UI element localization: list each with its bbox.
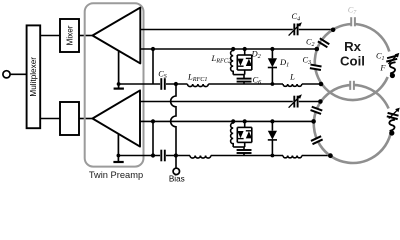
variable capacitor bottom loop right (387, 108, 400, 120)
node dot w5-w6 join (151, 153, 155, 157)
capacitor C7 gray (351, 17, 355, 26)
svg-text:L: L (289, 72, 295, 82)
capacitor CS (161, 78, 165, 90)
node dot ground w3 (117, 82, 121, 86)
op-amp top preamp (93, 8, 141, 64)
node dot w5 drop (151, 119, 155, 123)
capacitor gray bottom loop (350, 81, 354, 90)
svg-text:Mulitplexer: Mulitplexer (29, 57, 38, 97)
wire CS2 to LRFC1 lower (166, 155, 190, 157)
node bar lower (233, 146, 245, 148)
node on bottom loop w5 (311, 119, 316, 124)
node fuse bottom loop (389, 130, 394, 135)
wire w4 right segment (299, 101, 321, 103)
wire w3 middle segment (208, 83, 283, 85)
fuse squiggle bottom loop (389, 120, 394, 131)
node on bottom loop w4 (318, 99, 323, 104)
node dot ground w6 (117, 154, 121, 158)
capacitor C6 lower (237, 147, 252, 156)
diode D1 (268, 47, 277, 86)
op-amp bottom preamp (93, 90, 141, 146)
wire w4 bottom preamp output1 (140, 101, 293, 103)
lower mixer box (60, 102, 79, 135)
node C on coil (319, 82, 324, 87)
wire port to multiplexer (10, 73, 26, 75)
ground bottom preamp (113, 134, 123, 162)
svg-text:Rx: Rx (344, 39, 362, 54)
svg-text:Twin Preamp: Twin Preamp (89, 170, 143, 180)
capacitor CS lower (161, 150, 165, 162)
node fuse bottom (390, 73, 395, 78)
wire drop w2 to w3 (152, 49, 154, 84)
wire w6 lower input line (118, 155, 160, 157)
ground top preamp (114, 52, 124, 89)
diode D1 lower (268, 119, 277, 157)
variable capacitor lower (289, 94, 302, 107)
wire CS to LRFC1 (166, 83, 188, 85)
inductor L (283, 84, 302, 86)
mixer U-mix box (60, 19, 79, 52)
node on bottom loop w6 (328, 153, 333, 158)
svg-text:Coil: Coil (340, 54, 365, 69)
capacitor C4 variable (289, 22, 302, 35)
port terminal (3, 71, 10, 78)
multiplexer box (27, 25, 41, 128)
node dot bias junction (174, 153, 178, 157)
rfc network upper: vertical wire LRFC2 top (231, 47, 236, 75)
node dot bias tap on w3 (174, 82, 178, 86)
node A on coil (331, 28, 336, 33)
wire w2 second output (140, 48, 317, 50)
wire w6 middle segment (211, 155, 283, 157)
capacitor C6 (237, 75, 252, 84)
wire drop w5 to w6 (152, 121, 154, 155)
capacitor C2 on coil (318, 38, 330, 48)
node B on coil (315, 47, 320, 52)
wire w1 right segment (299, 29, 333, 31)
rfc network lower: inductor LRFC2 lower (231, 119, 236, 147)
wire L to coil (302, 83, 321, 85)
svg-text:Bias: Bias (169, 175, 185, 184)
wire w3 input line (119, 83, 161, 85)
wire w5 bottom preamp output2 (140, 120, 314, 122)
inductor LRFC1 (188, 84, 209, 87)
rx coil top loop (315, 24, 390, 100)
rx coil bottom loop (314, 85, 391, 163)
capacitor C1 variable on coil (386, 53, 399, 64)
wire mixer to top preamp (79, 35, 93, 37)
wire multiplexer to mixer (40, 35, 60, 37)
capacitor C3 on coil (310, 64, 322, 70)
twin preamp enclosure (85, 3, 144, 166)
inductor L lower (283, 156, 302, 158)
diode pair D2 (237, 47, 252, 75)
bias feed vertical wire with hops (171, 84, 176, 168)
svg-text:F: F (379, 64, 386, 73)
capacitor on bottom loop upper (310, 106, 322, 114)
wire multiplexer to lower mixer (40, 118, 60, 120)
capacitor on bottom loop lower (311, 136, 323, 145)
wire L2 to coil (302, 155, 331, 157)
diode pair lower (237, 119, 252, 147)
inductor LRFC1 lower (190, 156, 211, 159)
bias terminal (173, 168, 179, 174)
node dot w2 drop (151, 47, 155, 51)
wire w1 top output (140, 29, 292, 31)
node bar under LRFC2 (233, 74, 245, 76)
svg-text:Mixer: Mixer (66, 25, 75, 45)
fuse F squiggle (390, 62, 395, 73)
wire lower mixer to bottom preamp (79, 118, 93, 120)
